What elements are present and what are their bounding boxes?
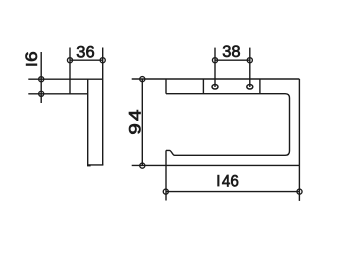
front view: mounting hole left xyxy=(212,85,218,90)
dim 38: dimension line xyxy=(215,59,250,61)
dim 146: left extension line with front-view lip left edge xyxy=(165,150,167,200)
svg-text:46: 46 xyxy=(222,172,239,190)
dim 16: dimension line xyxy=(40,52,42,103)
dim 16: value label digit 1 xyxy=(26,64,37,66)
svg-text:6: 6 xyxy=(22,51,41,62)
svg-text:9: 9 xyxy=(125,123,144,134)
dim 16: end circle bottom xyxy=(39,91,44,96)
side view: bar back edge with 36-dim right extension xyxy=(102,48,104,165)
front view: inner contour (bar bottom edge, inner right edge, arm top edge, left lip) xyxy=(166,94,290,156)
side view: bar front edge xyxy=(87,79,89,165)
svg-text:36: 36 xyxy=(76,43,94,61)
dim 38: end circle right xyxy=(247,58,252,63)
dim 94: end circle bottom xyxy=(140,163,145,168)
front view: top edge with 94-dim top extension xyxy=(132,78,300,80)
front view: right outer edge xyxy=(298,79,300,165)
dim 16: end circle top xyxy=(39,77,44,82)
dim 94: dimension line xyxy=(141,79,143,166)
front view: mounting plate divider right xyxy=(259,79,261,94)
side view: arm bottom edge with 16-dim extension xyxy=(28,93,87,95)
front view: top bar left cap xyxy=(165,79,167,94)
dim 38: end circle left xyxy=(212,58,217,63)
dim 38: left extension line xyxy=(214,48,216,87)
dim 36: dimension line xyxy=(70,59,103,61)
dim 38: right extension line xyxy=(249,48,251,87)
dim 146: value label xyxy=(217,175,219,187)
dim 36: end circle left xyxy=(67,58,72,63)
front view: arm bottom edge with 94-dim bottom extension xyxy=(132,164,300,166)
dim 94: end circle top xyxy=(140,77,145,82)
side view: bar bottom edge xyxy=(87,164,103,166)
front view: mounting hole right xyxy=(247,85,253,90)
side view: bottom lip nub xyxy=(87,165,91,167)
dim 146: end circle left xyxy=(163,189,168,194)
dim 146: right extension line xyxy=(298,165,300,201)
side view: arm top edge with 16-dim extension xyxy=(28,78,102,80)
svg-text:4: 4 xyxy=(125,110,144,121)
dim 146: end circle right xyxy=(297,189,302,194)
dim 146: dimension line xyxy=(166,191,300,193)
svg-text:38: 38 xyxy=(222,43,240,61)
dim 36: end circle right xyxy=(100,58,105,63)
front view: mounting plate divider left xyxy=(202,79,204,94)
dim 36: left extension line xyxy=(69,48,71,95)
